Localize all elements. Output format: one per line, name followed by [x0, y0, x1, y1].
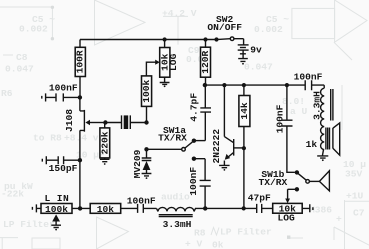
wire 100R top lead [79, 40, 81, 48]
svg-text:+ V: + V [185, 239, 203, 249]
core lines upper [331, 89, 333, 121]
svg-text:100nF: 100nF [49, 83, 78, 94]
node 14k top [242, 83, 246, 87]
svg-text:9v: 9v [250, 45, 262, 56]
resistor R 100R [75, 47, 85, 76]
svg-text:J108: J108 [64, 109, 75, 132]
resistor R 14k [243, 85, 245, 95]
svg-text:100R: 100R [75, 50, 86, 73]
svg-text:10k: 10k [97, 204, 115, 215]
svg-text:TX/RX: TX/RX [259, 177, 288, 188]
node varactor top [144, 147, 148, 151]
varactor D MV209 [142, 149, 152, 160]
svg-text:C7: C7 [353, 208, 365, 219]
svg-text:100nF: 100nF [188, 167, 199, 196]
svg-text:R6: R6 [1, 88, 13, 99]
resistor R 120R [201, 47, 211, 77]
node bottom cap junction [203, 206, 207, 210]
resistor R 220k [104, 123, 106, 128]
wire 100k wiper to pot [146, 62, 155, 76]
node 100nF tap [285, 83, 289, 87]
svg-text:100nF: 100nF [294, 72, 323, 83]
node L-IN junction [78, 206, 82, 210]
node pot top [163, 37, 167, 41]
svg-text:0.002: 0.002 [19, 24, 48, 35]
svg-text:35V: 35V [345, 169, 363, 180]
crystal X1 [122, 115, 131, 129]
transistor Q J108 [80, 97, 84, 160]
svg-text:220k: 220k [99, 131, 110, 154]
svg-text:a U: a U [290, 106, 308, 117]
svg-text:ON/OFF: ON/OFF [207, 22, 242, 33]
battery 9v [238, 44, 249, 46]
node 47pF junction [242, 206, 246, 210]
speaker LS1 [332, 128, 334, 148]
svg-text:0.002: 0.002 [254, 24, 283, 35]
svg-text:TX/RX: TX/RX [158, 133, 187, 144]
node base/14k [242, 146, 246, 150]
wire base node down [243, 148, 245, 208]
svg-text:100k: 100k [141, 79, 152, 102]
resistor R 100k vertical [146, 106, 148, 122]
svg-text:audio: audio [161, 192, 190, 203]
main schematic [32, 14, 339, 231]
svg-text:120R: 120R [200, 50, 211, 73]
svg-text:to R8: to R8 [33, 133, 62, 144]
ground below battery [238, 59, 248, 62]
svg-text:+1U: +1U [346, 191, 364, 202]
svg-text:LOG: LOG [168, 53, 179, 71]
svg-text:3.3mH: 3.3mH [163, 219, 192, 230]
ground below speaker coil [317, 150, 328, 159]
svg-text:1k: 1k [306, 139, 318, 150]
svg-text:100k: 100k [45, 204, 68, 215]
svg-text:LP Filter: LP Filter [220, 227, 272, 238]
svg-text:150pF: 150pF [49, 163, 78, 174]
svg-text:0.047: 0.047 [5, 64, 34, 75]
svg-text:+4.2 V: +4.2 V [162, 8, 197, 19]
node 120R top [203, 37, 207, 41]
wire top supply rail [80, 39, 217, 41]
svg-text:100nF: 100nF [127, 195, 156, 206]
node 120R bottom / 4.7pF [203, 83, 207, 87]
inductor L 3.3mH bottom [157, 207, 244, 211]
svg-text:MV209: MV209 [132, 149, 143, 178]
potentiometer VR 100k L IN [41, 204, 72, 214]
potentiometer VR 10k LOG bottom [273, 203, 303, 213]
ground below pot [160, 77, 170, 84]
potentiometer VR 10k LOG top [164, 40, 166, 48]
svg-text:4.7pF: 4.7pF [188, 93, 199, 122]
svg-text:0.047: 0.047 [244, 62, 273, 73]
svg-text:14k: 14k [239, 102, 250, 120]
wire mid rail [205, 84, 306, 86]
svg-text:100nF: 100nF [275, 104, 286, 133]
node 150pF junction [78, 158, 82, 162]
wire left column down [79, 160, 81, 208]
transistor Q 2N2222 [224, 85, 233, 143]
svg-text:-22k: -22k [1, 189, 24, 200]
svg-text:L IN: L IN [44, 193, 69, 204]
svg-text:47pF: 47pF [248, 193, 271, 204]
svg-text:R8: R8 [194, 228, 206, 239]
antenna [309, 180, 319, 182]
ground below 220k [100, 158, 110, 162]
node crystal right [144, 120, 148, 124]
wire 100R bottom lead [79, 77, 81, 98]
node collector tap [222, 83, 226, 87]
svg-text:C8: C8 [16, 52, 28, 63]
svg-text:+8.4 v: +8.4 v [64, 133, 99, 144]
pot wiper to ground [52, 214, 60, 221]
svg-text:LP Filter: LP Filter [3, 219, 55, 230]
node gate/220k [103, 120, 107, 124]
node drain/cap junction [78, 95, 82, 99]
node SW2 pole [214, 37, 218, 41]
core lines lower [326, 128, 330, 150]
wire gate to crystal [105, 122, 146, 124]
svg-text:2N2222: 2N2222 [211, 129, 222, 164]
resistor R 10k bottom [90, 204, 121, 214]
svg-text:+: + [336, 214, 342, 225]
svg-text:LOG: LOG [278, 212, 296, 223]
svg-text:0k: 0k [212, 240, 224, 249]
